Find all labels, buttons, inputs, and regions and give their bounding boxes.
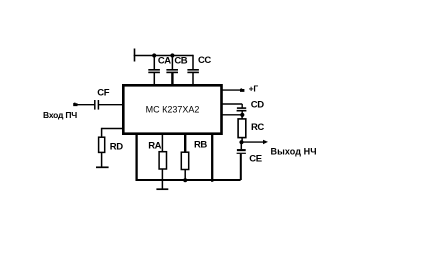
node junction CD/RC	[240, 113, 244, 117]
resistor RA	[148, 134, 166, 180]
svg-text:RC: RC	[251, 122, 264, 133]
svg-text:RA: RA	[148, 140, 161, 151]
svg-text:RD: RD	[110, 141, 123, 152]
svg-text:CA: CA	[158, 56, 171, 67]
svg-text:CB: CB	[174, 56, 187, 67]
svg-text:CD: CD	[251, 100, 264, 111]
wire left bottom vertical	[135, 134, 137, 181]
svg-text:RB: RB	[194, 140, 207, 151]
input terminal Вход ПЧ	[43, 102, 94, 120]
output terminal Выход НЧ	[242, 140, 317, 157]
wire right bottom vertical	[211, 134, 213, 182]
supply terminal +Г	[222, 84, 258, 94]
svg-text:CF: CF	[97, 88, 109, 99]
svg-text:+Г: +Г	[249, 84, 259, 94]
capacitor CA	[148, 56, 171, 86]
resistor RD	[96, 137, 123, 167]
capacitor CB	[166, 56, 187, 86]
node junction RB rail	[183, 178, 187, 182]
wire top bus	[134, 49, 194, 62]
svg-text:МС К237ХА2: МС К237ХА2	[146, 105, 200, 115]
resistor RC	[238, 115, 264, 142]
svg-text:CE: CE	[249, 153, 261, 164]
capacitor CD	[222, 100, 264, 115]
svg-text:Выход НЧ: Выход НЧ	[271, 146, 317, 156]
op-amp U1 МС К237ХА2	[123, 85, 221, 133]
capacitor CE	[237, 142, 262, 180]
node junction CB	[170, 53, 174, 57]
node junction CA	[152, 53, 156, 57]
ground	[156, 180, 168, 189]
node junction RC/CE	[239, 140, 243, 144]
svg-text:Вход ПЧ: Вход ПЧ	[43, 110, 77, 120]
capacitor CC	[187, 55, 211, 85]
wire pin to RD	[102, 128, 123, 138]
resistor RB	[181, 134, 207, 180]
wire bottom rail	[136, 179, 241, 181]
capacitor CF	[95, 88, 123, 110]
wire pin3 right	[222, 114, 243, 116]
svg-text:CC: CC	[198, 55, 211, 66]
